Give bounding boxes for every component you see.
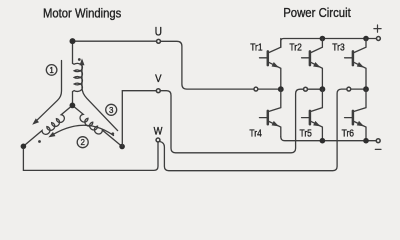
svg-text:Tr6: Tr6 [342, 128, 355, 139]
terminal V [156, 89, 160, 93]
svg-text:Power Circuit: Power Circuit [283, 5, 351, 20]
wire tap U to midpoint [258, 88, 281, 90]
polarity dot winding 2 [38, 140, 41, 143]
node: star center junction [70, 103, 76, 109]
node: star top junction [70, 38, 76, 44]
current arrow up beside winding 1 bending to winding 3 [82, 61, 118, 131]
winding 1 (vertical coil with loops) [73, 41, 83, 105]
wire: + supply rail [281, 39, 376, 48]
node: leg3 midpoint [363, 86, 369, 92]
svg-text:Tr3: Tr3 [332, 42, 345, 53]
svg-text:Motor Windings: Motor Windings [43, 5, 122, 20]
wire: W route to bridge leg 3 [160, 89, 347, 171]
label circled 2 [77, 137, 88, 148]
svg-text:Tr1: Tr1 [250, 42, 263, 53]
node: Tr2 collector on + rail [320, 36, 326, 42]
label circled 1 [46, 65, 57, 76]
transistor Tr3 [345, 39, 366, 90]
svg-text:1: 1 [49, 66, 54, 75]
node: leg1 midpoint [278, 86, 284, 92]
phase tap circle W [347, 87, 351, 91]
node: leg2 midpoint [320, 86, 326, 92]
terminal W [156, 138, 160, 142]
wire: star point to U line [73, 40, 157, 42]
winding 2 (lower-left coil) [23, 105, 72, 146]
current arrow down-left from winding 1 to winding 2 [35, 61, 62, 123]
current arrow arc from winding 3 to winding 2 [51, 125, 114, 136]
terminal U [157, 39, 161, 43]
svg-text:Tr2: Tr2 [289, 42, 302, 53]
svg-text:Tr5: Tr5 [300, 128, 313, 139]
phase tap circle V [304, 87, 308, 91]
svg-text:Tr4: Tr4 [249, 128, 262, 139]
wire: winding 3 end up to V terminal [122, 91, 156, 147]
node: Tr5 emitter on - rail [320, 138, 326, 144]
label circled 3 [106, 104, 117, 115]
transistor Tr4 [260, 89, 281, 137]
svg-text:U: U [155, 25, 162, 39]
svg-text:V: V [155, 73, 162, 85]
wire tap W to midpoint [351, 88, 366, 90]
node: winding 3 outer end [119, 144, 125, 150]
transistor Tr2 [302, 39, 323, 90]
node: winding 2 outer end [21, 144, 27, 150]
polarity dot winding 1 [78, 58, 81, 61]
transistor Tr6 [345, 89, 366, 141]
wire: - supply rail [281, 137, 376, 141]
node: Tr6 emitter on - rail [363, 138, 369, 144]
transistor Tr5 [302, 89, 323, 141]
wire tap V to midpoint [308, 88, 323, 90]
wire: W terminal down to bottom rail to winding 2 end [23, 142, 158, 170]
wire: V route to bridge leg 2 [161, 89, 303, 153]
node: Tr3 collector on + rail [363, 36, 369, 42]
minus sign [375, 148, 381, 150]
svg-text:3: 3 [109, 106, 114, 115]
transistor Tr1 [260, 39, 281, 90]
terminal + [376, 37, 380, 41]
winding 3 (lower-right coil) [72, 105, 122, 146]
svg-text:2: 2 [80, 138, 85, 147]
plus sign [374, 25, 381, 32]
phase tap circle U [254, 87, 258, 91]
svg-text:W: W [154, 125, 163, 137]
terminal - [376, 139, 380, 143]
polarity dot winding 3 [111, 132, 114, 135]
wire: U route to bridge leg 1 [161, 41, 254, 89]
